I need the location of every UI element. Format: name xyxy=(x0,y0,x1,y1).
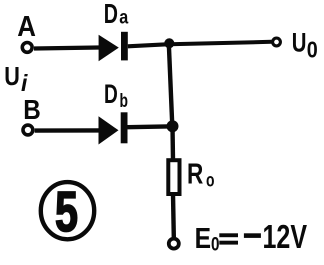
wire Db to node J2 xyxy=(128,124,169,129)
terminal B xyxy=(23,125,33,135)
svg-text:b: b xyxy=(120,91,129,112)
svg-text:5: 5 xyxy=(55,180,78,244)
node J1 junction xyxy=(164,38,174,48)
terminal U0 xyxy=(273,38,281,46)
terminal A xyxy=(22,43,32,53)
svg-text:12V: 12V xyxy=(263,218,308,255)
resistor R0 xyxy=(168,160,179,194)
svg-text:D: D xyxy=(104,79,118,109)
svg-text:B: B xyxy=(23,94,41,125)
figure number 5 circled xyxy=(41,180,94,244)
svg-text:D: D xyxy=(104,0,118,29)
node J2 junction xyxy=(167,120,179,132)
svg-text:A: A xyxy=(17,11,36,43)
label E0 = -12V xyxy=(195,218,307,255)
wire J1 to J2 xyxy=(169,43,173,126)
svg-text:U: U xyxy=(292,27,307,57)
wire J2 to resistor R0 xyxy=(170,126,175,160)
svg-text:R: R xyxy=(187,158,203,190)
diode Db xyxy=(99,112,128,144)
svg-text:U: U xyxy=(4,61,20,91)
terminal E0 xyxy=(169,239,179,249)
svg-text:0: 0 xyxy=(211,234,220,255)
diode Da xyxy=(99,32,128,61)
wire J1 to output U0 xyxy=(169,42,271,45)
wire B to diode Db xyxy=(35,128,99,133)
svg-text:o: o xyxy=(206,171,215,192)
svg-text:a: a xyxy=(119,7,128,28)
wire Da to node J1 xyxy=(128,44,167,46)
svg-text:0: 0 xyxy=(307,37,318,63)
svg-text:i: i xyxy=(21,70,28,96)
svg-text:E: E xyxy=(195,223,211,255)
wire A to diode Da xyxy=(34,48,99,49)
wire R0 to terminal E0 xyxy=(171,194,176,237)
